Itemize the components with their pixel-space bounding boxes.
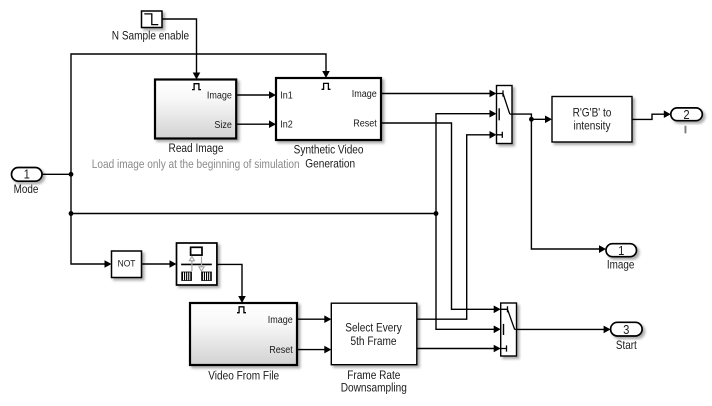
svg-text:R'G'B' to: R'G'B' to [573,107,612,120]
output port 3 Start [611,322,643,352]
svg-text:2: 2 [683,107,689,122]
wire: Select out1 up to switch1 in3 [417,131,497,319]
svg-text:1: 1 [618,243,625,258]
NOT block [112,251,142,278]
svg-text:Downsampling: Downsampling [341,382,407,395]
svg-text:Mode: Mode [14,183,39,196]
svg-text:Generation: Generation [305,158,355,171]
svg-text:Select Every: Select Every [345,322,402,335]
wire: riser up to Synthetic Video trigger [71,54,330,174]
output port 1 Image [606,243,637,271]
wire: R'G'B' out to port2 [632,110,671,119]
svg-text:3: 3 [623,322,630,337]
wire: VFF Image to Select in1 [297,315,331,323]
wire: mode branch horizontal to x436 [71,211,438,216]
wire: Read Image Size to In2 [236,120,276,128]
svg-text:In1: In1 [280,90,293,102]
wire: mode vertical to switch1 in2 and switch2 in2 [436,110,501,333]
Video From File subsystem [190,303,297,383]
R'G'B' to intensity block [552,97,632,143]
svg-text:N Sample enable: N Sample enable [112,30,189,43]
svg-text:Video From File: Video From File [208,370,279,383]
Read Image subsystem [155,80,236,156]
wire: Select out2 to switch2 in3 [417,345,501,353]
wire: switch2 out to port3 [517,326,611,334]
wire: riser down to NOT [69,174,112,267]
switch 2 [501,303,517,356]
svg-text:In2: In2 [280,119,293,131]
svg-text:Start: Start [616,340,637,353]
svg-text:NOT: NOT [118,258,136,268]
wire: Synthetic Video Image to switch1 in1 [381,90,497,98]
output port 2 I [671,107,703,133]
svg-text:Reset: Reset [353,118,377,130]
wire: VFF Reset to Select in2 [297,346,331,354]
svg-text:Image: Image [352,89,377,101]
wire: N Sample enable to Read Image trigger [162,19,200,80]
svg-text:Frame Rate: Frame Rate [347,369,400,382]
svg-text:Synthetic Video: Synthetic Video [294,144,364,157]
N Sample enable source block [112,11,189,43]
svg-text:Image: Image [607,259,635,272]
frame conversion icon block [177,243,217,285]
wire: Mode to riser junction [42,172,73,177]
svg-text:1: 1 [24,167,31,182]
svg-text:Size: Size [214,119,232,131]
Synthetic Video Generation subsystem [276,78,381,171]
Select Every 5th Frame block [331,303,417,395]
switch 1 [497,86,513,144]
wire: Synthetic Video Reset down to switch2 in1 [381,123,501,313]
svg-text:Image: Image [268,314,293,326]
wire: icon block to Video From File trigger [217,264,246,303]
svg-text:Read Image: Read Image [169,142,224,155]
svg-text:intensity: intensity [574,120,611,133]
svg-text:Load image only at the beginni: Load image only at the beginning of simu… [92,158,300,171]
svg-text:5th Frame: 5th Frame [351,335,397,348]
input port 1 Mode [12,167,43,196]
wire: Read Image Image to In1 [236,91,276,99]
svg-text:Reset: Reset [269,345,293,357]
wire: switch1 out to junction, R'G'B' and port1 [512,114,606,253]
wire: NOT out to icon block [142,260,177,268]
svg-text:Image: Image [207,90,232,102]
